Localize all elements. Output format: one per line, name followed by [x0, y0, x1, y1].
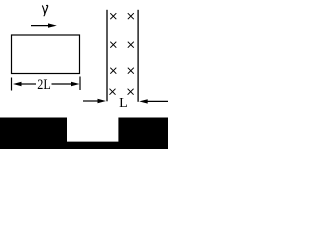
dimension 2L right tick: [79, 77, 81, 91]
svg-text:L: L: [119, 96, 128, 111]
dimension 2L right arrow: [52, 82, 80, 86]
rectangular loop: [12, 35, 80, 74]
field cross row3 col1: [110, 68, 116, 74]
field region left boundary line: [106, 10, 108, 102]
dimension 2L left tick: [11, 78, 13, 91]
dimension L right arrow: [139, 99, 168, 103]
field cross row1 col2: [128, 13, 134, 19]
field region right boundary line: [137, 10, 139, 102]
dimension 2L left arrow: [13, 82, 36, 86]
label v (velocity): [42, 5, 47, 15]
svg-text:2L: 2L: [37, 77, 51, 93]
bottom black bar with notch: [0, 118, 168, 150]
velocity arrow: [31, 23, 57, 27]
field cross row4 col1: [110, 89, 116, 95]
field cross row4 col2: [128, 89, 134, 95]
dimension L left arrow: [83, 99, 106, 103]
field cross row2 col1: [110, 42, 116, 48]
field cross row3 col2: [128, 68, 134, 74]
field cross row2 col2: [128, 42, 134, 48]
field cross row1 col1: [110, 13, 116, 19]
